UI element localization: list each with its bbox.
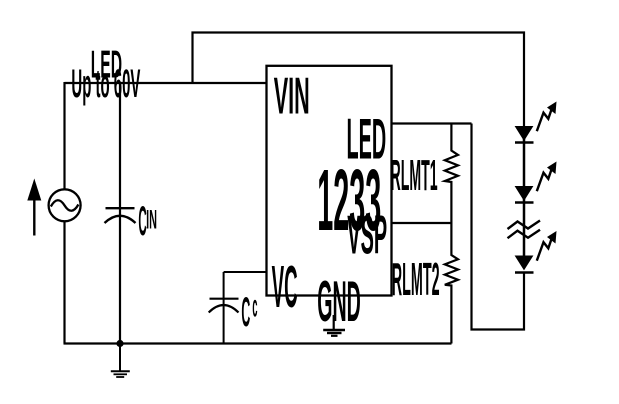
wire left rail upper bbox=[63, 82, 65, 189]
svg-text:RLMT2: RLMT2 bbox=[392, 253, 440, 305]
wire top rail bbox=[193, 33, 525, 128]
svg-text:VIN: VIN bbox=[274, 67, 310, 125]
svg-text:C: C bbox=[241, 289, 250, 335]
resistor RLMT1 bbox=[445, 124, 458, 224]
label RLMT1 bbox=[391, 151, 438, 200]
wire LED pin row bbox=[392, 122, 472, 124]
LED D1 light arrow bbox=[537, 102, 557, 132]
LED D3 light arrow bbox=[537, 231, 557, 261]
svg-text:GND: GND bbox=[317, 270, 361, 334]
wire VSP pin row bbox=[392, 222, 452, 224]
label Up to 60V bbox=[71, 62, 140, 106]
label LED pin bbox=[347, 107, 387, 171]
svg-text:c: c bbox=[252, 289, 257, 324]
break symbol bbox=[508, 221, 541, 239]
svg-text:VC: VC bbox=[272, 253, 298, 320]
IC U1 LED1233 box bbox=[267, 66, 392, 296]
LED D2 bbox=[515, 187, 534, 203]
LED D1 bbox=[515, 127, 534, 143]
svg-text:IN: IN bbox=[146, 204, 157, 235]
wire VIN horizontal bbox=[65, 82, 267, 84]
wire LED return bbox=[472, 124, 525, 330]
label RLMT2 bbox=[392, 253, 440, 305]
LED string wire middle bbox=[523, 187, 526, 256]
current arrow bbox=[27, 179, 41, 236]
ground IC bbox=[323, 315, 345, 336]
junction dot bbox=[116, 340, 123, 347]
ground main bbox=[111, 344, 130, 378]
label VIN pin bbox=[274, 67, 310, 125]
LED D2 light arrow bbox=[537, 162, 557, 192]
voltage source V1 bbox=[49, 189, 81, 221]
label LED top bbox=[91, 44, 122, 87]
svg-text:Up to 60V: Up to 60V bbox=[71, 62, 140, 106]
svg-text:RLMT1: RLMT1 bbox=[391, 151, 438, 200]
LED D3 bbox=[515, 256, 534, 273]
capacitor CC bbox=[209, 272, 239, 344]
label GND pin bbox=[317, 270, 361, 334]
label CIN bbox=[138, 198, 157, 244]
label VSP pin bbox=[347, 204, 387, 266]
LED string wire upper bbox=[523, 127, 526, 187]
wire VC branch bbox=[224, 271, 267, 273]
capacitor CIN bbox=[105, 84, 136, 344]
label 1233 part number bbox=[317, 151, 381, 249]
label VC pin bbox=[272, 253, 298, 320]
resistor RLMT2 bbox=[445, 223, 458, 344]
label CC bbox=[241, 289, 257, 336]
svg-text:VSP: VSP bbox=[347, 204, 387, 266]
wire left rail lower bbox=[63, 221, 65, 343]
wire bottom rail bbox=[64, 342, 452, 344]
